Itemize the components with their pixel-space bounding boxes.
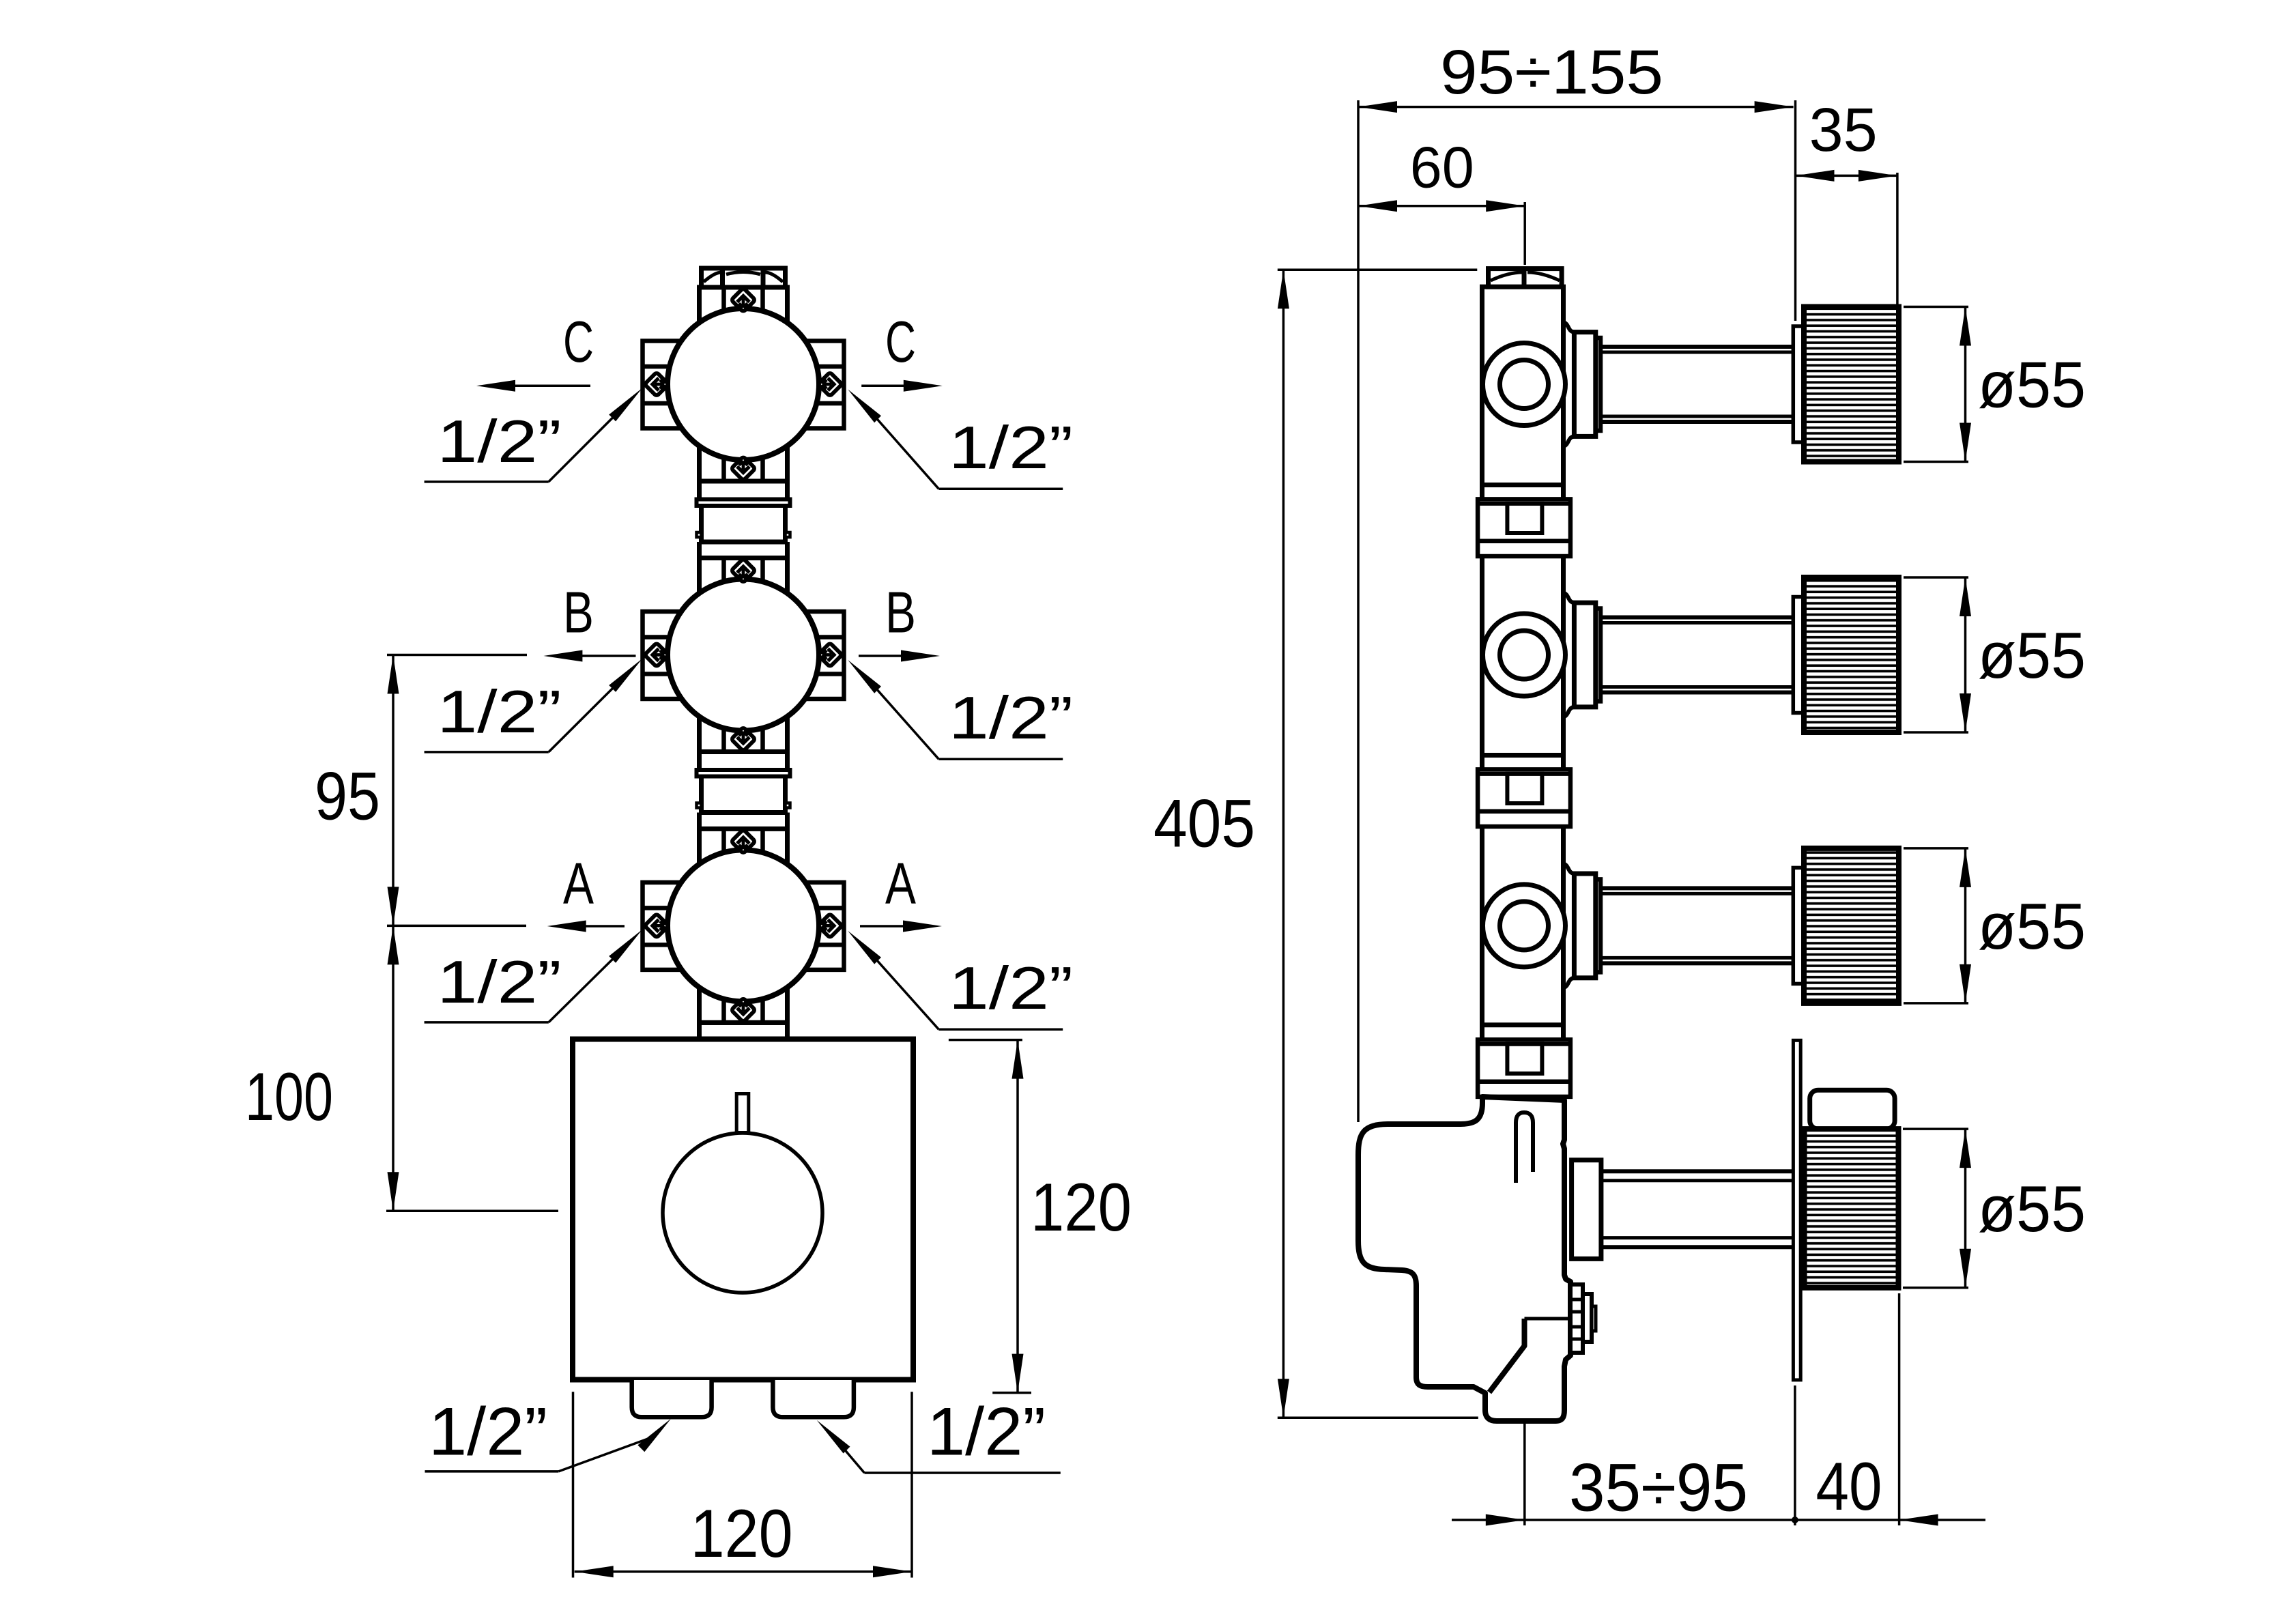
svg-text:35: 35 <box>1809 96 1878 164</box>
svg-text:C: C <box>885 310 916 375</box>
body joint line below valve 2 <box>1482 753 1564 758</box>
thermostat housing blob (side view) <box>1358 1097 1570 1421</box>
dimension 405 <box>1282 270 1285 1418</box>
svg-text:B: B <box>563 581 594 646</box>
dimension ø55 for knob 3 <box>1904 847 1968 850</box>
svg-text:120: 120 <box>1031 1169 1132 1245</box>
svg-text:95: 95 <box>315 758 380 834</box>
dimension 35 <box>1796 175 1897 177</box>
knob index stem <box>736 1094 749 1133</box>
extension line at valve A center <box>387 925 526 928</box>
thermostat knob cap ring <box>1810 1090 1895 1129</box>
svg-text:1/2”: 1/2” <box>429 1393 547 1469</box>
dimension 35÷95 and 40 <box>1523 1421 1526 1525</box>
svg-text:405: 405 <box>1153 785 1255 861</box>
dimension 60 <box>1358 205 1525 207</box>
branch block + flange + pipe + knob for valve A <box>1564 848 1899 1003</box>
svg-text:40: 40 <box>1816 1448 1882 1524</box>
svg-text:1/2”: 1/2” <box>927 1393 1046 1469</box>
extension line at body top (datum for 405) <box>1278 268 1478 271</box>
hidden edge inside blob <box>1525 1317 1571 1321</box>
svg-text:1/2”: 1/2” <box>437 948 562 1016</box>
drain bolt detail on blob right edge <box>1570 1284 1596 1353</box>
wall plate (120 square seen edge-on) <box>1793 1040 1800 1380</box>
side view port boss circle valve B <box>1483 614 1566 696</box>
dimension 120 horizontal under box <box>572 1392 575 1577</box>
svg-text:B: B <box>885 581 916 646</box>
coupling ring 3 <box>1478 1039 1570 1097</box>
dimension ø55 for thermostat knob <box>1903 1128 1968 1130</box>
foot crease edge <box>1489 1319 1525 1392</box>
coupling ring 1 <box>1478 499 1570 556</box>
valve body A (front view cross housing + cartridge circle) <box>643 829 844 1022</box>
bottom port tab right 1/2" <box>773 1380 854 1417</box>
svg-text:100: 100 <box>245 1059 333 1134</box>
bottom port tab left 1/2" <box>632 1380 712 1417</box>
body joint line below valve 1 <box>1482 483 1564 487</box>
thermostat box (front view, 120x120) <box>573 1039 913 1380</box>
svg-text:ø55: ø55 <box>1978 349 2086 422</box>
dimension line 95/100 vertical <box>392 655 394 1211</box>
dimension ø55 for knob 2 <box>1904 576 1968 579</box>
valve body B (front view cross housing + cartridge circle) <box>643 558 844 752</box>
svg-text:1/2”: 1/2” <box>437 678 562 745</box>
arrowheads dimension 100 <box>388 925 399 964</box>
svg-text:1/2”: 1/2” <box>949 684 1073 751</box>
svg-text:1/2”: 1/2” <box>437 407 562 475</box>
dimension 95÷155 <box>1358 106 1794 109</box>
manifold top cap <box>1489 269 1562 287</box>
thermostat knob pipe <box>1601 1169 1794 1173</box>
extension line at thermostat knob center <box>386 1209 558 1212</box>
manifold body column (side view) <box>1482 287 1564 1100</box>
svg-text:60: 60 <box>1410 136 1474 201</box>
valve body C (front view cross housing + cartridge circle) <box>643 287 844 481</box>
svg-text:ø55: ø55 <box>1978 619 2086 692</box>
branch block + flange + pipe + knob for valve C <box>1564 307 1899 462</box>
wall reference line (side view) <box>1357 100 1360 1122</box>
coupling ring 2 <box>1478 769 1570 827</box>
svg-text:ø55: ø55 <box>1978 1173 2086 1246</box>
side view port boss circle valve A <box>1483 885 1566 967</box>
column stub from valve A into thermostat box <box>700 1022 788 1039</box>
body joint line below valve 3 <box>1482 1022 1564 1027</box>
svg-text:ø55: ø55 <box>1978 890 2086 963</box>
svg-text:35÷95: 35÷95 <box>1569 1449 1748 1525</box>
arrowheads dimension 95 <box>388 655 399 694</box>
svg-text:C: C <box>563 310 594 375</box>
svg-text:A: A <box>563 851 594 916</box>
thermostat knob circle <box>663 1133 822 1293</box>
svg-text:1/2”: 1/2” <box>949 414 1073 481</box>
dimension ø55 for knob 1 <box>1904 306 1968 308</box>
dimension 120 vertical right of box <box>949 1039 1022 1042</box>
thermostat knob flange <box>1572 1160 1601 1259</box>
cartridge slot mark on blob <box>1516 1112 1533 1183</box>
side view port boss circle valve C <box>1483 343 1566 426</box>
connector pipe between valve C and next valve <box>697 481 790 558</box>
branch block + flange + pipe + knob for valve B <box>1564 577 1899 732</box>
svg-text:95÷155: 95÷155 <box>1440 38 1663 107</box>
svg-text:120: 120 <box>691 1495 793 1571</box>
hex cap nut on top of valve C <box>702 268 786 288</box>
thermostat knob knurled grip <box>1805 1129 1899 1288</box>
extension line at valve B center <box>387 654 527 657</box>
connector pipe between valve B and next valve <box>697 752 790 829</box>
svg-text:1/2”: 1/2” <box>949 954 1073 1022</box>
svg-text:A: A <box>885 851 916 916</box>
